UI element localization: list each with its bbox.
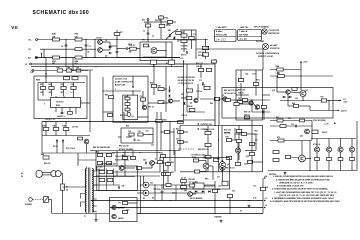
svg-text:R100: R100 xyxy=(192,157,196,159)
svg-text:D6: D6 xyxy=(152,198,154,200)
wire xyxy=(102,49,110,51)
svg-text:+15 (B): +15 (B) xyxy=(97,167,103,169)
wire xyxy=(207,159,209,172)
wire xyxy=(41,122,43,154)
wire xyxy=(200,64,202,69)
wire xyxy=(180,171,222,173)
switch S1 dashed link xyxy=(33,199,44,201)
terminal blob xyxy=(35,56,38,58)
wire xyxy=(116,151,118,166)
wire xyxy=(112,171,160,173)
wire xyxy=(328,139,330,147)
wire rectified+ xyxy=(149,184,215,186)
wire xyxy=(169,151,171,164)
wire xyxy=(154,185,156,188)
capacitor C4 xyxy=(65,45,68,46)
diode D10 xyxy=(202,190,204,192)
primary tap jog 2 xyxy=(81,202,86,207)
transistor Q12 xyxy=(305,129,310,134)
wire xyxy=(255,135,257,151)
svg-text:R56: R56 xyxy=(210,103,213,105)
wire xyxy=(161,193,163,201)
svg-text:R70: R70 xyxy=(276,117,279,119)
resistor R41 xyxy=(40,83,46,89)
wire xyxy=(51,83,53,87)
wire ps grid2 xyxy=(93,184,120,186)
svg-text:(+15): (+15) xyxy=(325,124,329,126)
svg-text:CHASSIS: CHASSIS xyxy=(214,216,222,219)
wire xyxy=(45,122,47,128)
svg-text:Q19, D9, D11, Q18, F1, T1, S1,: Q19, D9, D11, Q18, F1, T1, S1, U8, R105 … xyxy=(279,194,335,197)
junction xyxy=(161,184,162,185)
svg-text:4 LINE CONTROL FET: 4 LINE CONTROL FET xyxy=(115,81,134,84)
capacitor C12 box xyxy=(140,96,146,101)
svg-text:+: + xyxy=(164,190,165,192)
svg-text:OHMS ARE 5%, 1/4 W, 1 K =: OHMS ARE 5%, 1/4 W, 1 K = 1 K OHM. xyxy=(279,181,313,184)
resistor R28 xyxy=(52,34,60,41)
junction xyxy=(214,125,215,126)
junction xyxy=(83,82,84,83)
capacitor C51 box xyxy=(106,162,111,165)
svg-text:1u: 1u xyxy=(255,143,257,145)
resistor R73d xyxy=(350,158,355,161)
wire xyxy=(245,150,256,152)
chassis ground under T1 xyxy=(94,219,97,222)
wire xyxy=(128,202,137,204)
svg-text:PHYSICAL CONFIGURATION: PHYSICAL CONFIGURATION xyxy=(256,52,280,55)
resistor R91 xyxy=(106,154,111,157)
wire input+ rail xyxy=(38,39,209,41)
svg-text:(7.5): (7.5) xyxy=(253,198,257,200)
wire xyxy=(218,126,220,172)
svg-text:C13: C13 xyxy=(193,34,196,36)
wire bridge feed 1 xyxy=(140,176,142,214)
svg-text:COLLECTOR: COLLECTOR xyxy=(269,30,280,32)
junction xyxy=(132,90,133,91)
capacitor C16 box xyxy=(206,69,211,72)
wire bus second xyxy=(31,66,184,68)
capacitor C2 xyxy=(85,44,89,46)
svg-text:C15a: C15a xyxy=(205,47,209,49)
wire xyxy=(200,98,222,100)
svg-text:dbx: dbx xyxy=(69,10,79,16)
svg-text:R43: R43 xyxy=(61,83,64,86)
capacitor C53 xyxy=(161,190,165,192)
wire xyxy=(183,141,188,143)
wire xyxy=(73,96,75,98)
capacitor C49 xyxy=(146,162,147,165)
diode D14 xyxy=(109,46,111,48)
svg-text:TO MTR: TO MTR xyxy=(224,133,231,135)
power supply grid enclosure xyxy=(97,166,138,191)
wire xyxy=(302,97,304,101)
resistor R24 xyxy=(52,56,60,63)
svg-text:R50: R50 xyxy=(124,97,127,99)
wire xyxy=(178,39,196,41)
wire xyxy=(340,139,342,147)
wire ladder2 xyxy=(205,40,207,60)
wire xyxy=(184,119,206,121)
svg-text:C18 10u: C18 10u xyxy=(196,91,202,93)
junction xyxy=(175,192,176,193)
power supply sub box xyxy=(110,198,138,222)
resistor R72a xyxy=(300,119,305,122)
capacitor C6 box xyxy=(150,60,156,64)
svg-text:R57 C24: R57 C24 xyxy=(120,114,127,117)
junction xyxy=(65,39,66,40)
svg-text:Q12: Q12 xyxy=(300,136,303,138)
svg-text:C38: C38 xyxy=(255,109,258,111)
svg-text:D9 D10 BRIDGE: D9 D10 BRIDGE xyxy=(190,198,203,200)
wire xyxy=(148,21,161,23)
junction xyxy=(255,94,256,95)
wire xyxy=(222,160,224,165)
wire xyxy=(191,30,193,37)
wire AC neutral xyxy=(42,174,50,176)
resistor R60 xyxy=(238,79,243,82)
capacitor C52 xyxy=(154,187,158,189)
arrow +24V xyxy=(264,177,266,179)
svg-text:2200: 2200 xyxy=(157,189,161,191)
capacitor C14 xyxy=(187,51,188,54)
wire xyxy=(328,152,330,157)
wire meter vert xyxy=(238,126,240,161)
resistor R95 xyxy=(122,211,127,214)
input terminal J1 tip xyxy=(36,39,38,41)
wire long vertical xyxy=(160,112,162,150)
svg-text:R66: R66 xyxy=(171,162,174,164)
resistor R35a xyxy=(189,37,194,40)
arrow signal xyxy=(197,123,199,125)
junction xyxy=(45,63,46,64)
svg-text:C31: C31 xyxy=(217,177,220,179)
svg-text:C39: C39 xyxy=(291,124,294,126)
svg-text:C56: C56 xyxy=(265,187,268,189)
resistor R44 xyxy=(43,124,49,130)
wire xyxy=(55,122,57,128)
wire transformer tap xyxy=(93,211,96,213)
wire xyxy=(151,165,153,168)
svg-text:R46: R46 xyxy=(63,124,66,127)
wire xyxy=(43,49,45,57)
wire xyxy=(204,185,215,187)
resistor R61 xyxy=(237,101,242,104)
wire xyxy=(305,158,311,160)
wire xyxy=(56,143,58,154)
wire trim arrow xyxy=(166,29,178,40)
wire xyxy=(81,102,91,104)
wire xyxy=(61,173,62,175)
sidechain left box xyxy=(236,70,263,120)
wire xyxy=(154,162,170,164)
wire xyxy=(78,159,96,161)
transistor Q23 xyxy=(112,214,116,218)
junction xyxy=(124,175,125,176)
capacitor C5 xyxy=(147,33,150,34)
wire xyxy=(301,141,303,156)
VCA dbx202 enclosure xyxy=(113,76,148,122)
wire xyxy=(153,88,155,95)
wire threshold mid xyxy=(42,135,90,137)
junction xyxy=(72,70,73,71)
svg-text:4. REFERENCE ASSEMBLY DWG /: 4. REFERENCE ASSEMBLY DWG / BOARD SCHEMA… xyxy=(272,197,334,200)
svg-text:C55: C55 xyxy=(232,191,235,193)
svg-text:POWER: POWER xyxy=(25,204,32,206)
wire xyxy=(191,40,193,50)
resistor R43 xyxy=(61,83,67,89)
junction xyxy=(218,139,219,140)
power switch terminal xyxy=(29,198,33,202)
resistor R49 xyxy=(109,96,114,99)
wire xyxy=(183,37,185,40)
svg-text:C4: C4 xyxy=(61,45,63,48)
wire xyxy=(65,131,67,136)
resistor R53 xyxy=(108,114,113,117)
resistor R61c xyxy=(178,121,184,124)
junction xyxy=(300,75,301,76)
wire xyxy=(248,99,270,101)
wire xyxy=(161,185,163,191)
resistor R35 xyxy=(187,89,193,92)
wire xyxy=(77,153,79,166)
resistor R51 xyxy=(125,103,130,106)
svg-text:-15: -15 xyxy=(25,64,28,66)
transistor Q15 xyxy=(338,147,343,152)
resistor R101 xyxy=(194,170,199,173)
svg-text:C34: C34 xyxy=(245,73,248,76)
svg-text:C53: C53 xyxy=(172,193,175,195)
wire xyxy=(316,139,318,147)
terminal +15 feed xyxy=(147,19,149,21)
wire xyxy=(270,125,312,127)
wire xyxy=(126,136,132,138)
resistor R32 xyxy=(198,69,203,72)
svg-text:(-)OUT: (-)OUT xyxy=(341,111,347,113)
wire xyxy=(123,112,125,121)
capacitor C50 box xyxy=(97,162,102,165)
junction xyxy=(123,121,124,122)
resistor R61a xyxy=(178,131,184,134)
VCA inner module box xyxy=(123,95,138,119)
wire xyxy=(287,94,289,106)
svg-text:NOTE TYP. LOCAT.: NOTE TYP. LOCAT. xyxy=(258,55,274,58)
transistor Q16 xyxy=(349,147,354,152)
capacitor C9 xyxy=(127,47,128,50)
wire xyxy=(127,111,129,113)
transistor Q27 xyxy=(220,162,226,168)
wire xyxy=(124,151,126,157)
wire xyxy=(118,57,180,59)
wire xyxy=(183,131,188,133)
wire xyxy=(251,100,253,112)
wire right edge vertical xyxy=(356,121,358,171)
wire xyxy=(316,152,318,157)
resistor R74 xyxy=(273,151,279,154)
junction xyxy=(102,90,103,91)
diode D1b2 xyxy=(173,37,175,39)
wire xyxy=(243,101,249,103)
wire xyxy=(142,91,144,98)
svg-text:160: 160 xyxy=(80,10,90,16)
resistor R33 xyxy=(181,32,187,37)
wire xyxy=(234,128,236,140)
resistor R83 xyxy=(241,133,246,136)
wire xyxy=(316,161,318,171)
resistor R87 xyxy=(213,159,218,162)
wire transformer tap xyxy=(93,198,96,200)
resistor R75a xyxy=(225,99,230,102)
wire xyxy=(51,200,53,214)
svg-text:C26: C26 xyxy=(137,140,140,142)
svg-text:R55: R55 xyxy=(158,86,161,88)
transistor Q2 xyxy=(98,48,103,53)
wire xyxy=(180,125,222,127)
svg-text:C4 R16: C4 R16 xyxy=(96,37,102,40)
wire xyxy=(70,69,93,71)
wire xyxy=(127,105,129,108)
transistor Q3 xyxy=(151,48,157,54)
wire bus -15V xyxy=(31,63,208,65)
wire xyxy=(183,30,185,34)
junction xyxy=(156,121,157,122)
wire input- rail xyxy=(40,48,96,50)
wire xyxy=(169,122,171,151)
wire xyxy=(109,42,111,50)
arrow output minus xyxy=(338,110,340,112)
wire xyxy=(86,167,88,169)
resistor R42 xyxy=(49,83,55,89)
svg-text:4K3: 4K3 xyxy=(75,62,78,65)
diode D11 xyxy=(208,190,210,192)
svg-text:C25: C25 xyxy=(146,131,149,133)
wire xyxy=(41,54,43,58)
svg-text:Q18: Q18 xyxy=(246,156,249,158)
resistor R20 xyxy=(159,24,169,28)
junction xyxy=(154,184,155,185)
svg-text:C8: C8 xyxy=(173,39,175,41)
terminal bus xyxy=(30,63,32,65)
resistor R46b xyxy=(77,137,82,140)
resistor R98 xyxy=(130,157,135,160)
svg-text:R63 10K C37 R69: R63 10K C37 R69 xyxy=(224,90,238,92)
wire xyxy=(128,48,140,50)
transistor Q4a xyxy=(127,113,131,117)
transistor Q6 xyxy=(194,98,198,102)
transformer T1 primary winding xyxy=(85,169,86,213)
wire xyxy=(351,139,353,147)
svg-text:R58: R58 xyxy=(126,126,129,128)
resistor R31b xyxy=(176,32,181,35)
transistor Q7 xyxy=(223,97,227,101)
junction xyxy=(251,99,252,100)
diode D1 xyxy=(169,34,171,36)
svg-text:C41: C41 xyxy=(71,83,74,86)
capacitor C50 grid box xyxy=(99,170,105,173)
resistor R23 xyxy=(159,16,169,20)
wire AC drop lower xyxy=(62,190,64,213)
wire xyxy=(183,43,185,52)
wire xyxy=(42,83,44,87)
capacitor C7 xyxy=(116,52,119,53)
svg-text:C5: C5 xyxy=(143,31,145,33)
wire bus gnd xyxy=(31,70,88,72)
svg-text:3. LAST REF. DESIGNATORS USE: 3. LAST REF. DESIGNATORS USED R84, C57, … xyxy=(274,191,337,194)
wire xyxy=(263,94,271,96)
transistor Q1 xyxy=(98,40,103,45)
wire xyxy=(65,122,67,128)
wire xyxy=(140,184,143,186)
wire xyxy=(55,108,57,113)
svg-text:2. M INDICATES SELECTED VAL: 2. M INDICATES SELECTED VALUE AT TEST 10… xyxy=(272,188,329,191)
wire xyxy=(86,144,88,153)
transistor Q21 xyxy=(150,161,155,166)
svg-text:Q20: Q20 xyxy=(113,164,116,166)
wire xyxy=(65,40,67,67)
wire xyxy=(42,90,44,97)
capacitor C52b box xyxy=(181,186,187,189)
capacitor C31b box xyxy=(222,181,228,186)
resistor R68 xyxy=(292,103,299,108)
svg-text:A. RESISTORS ARE VALUES IN: A. RESISTORS ARE VALUES IN OHMS 5% PRECI… xyxy=(276,178,330,181)
transistor Q9 xyxy=(255,105,259,109)
wire xyxy=(197,84,199,99)
wire input ground rail xyxy=(38,57,181,59)
wire bridge feed 2 xyxy=(143,176,145,185)
wire xyxy=(45,58,47,79)
svg-text:(BELOW’ LVL: (BELOW’ LVL xyxy=(198,149,208,151)
wire xyxy=(255,86,257,96)
wire xyxy=(270,120,312,122)
svg-text:R99: R99 xyxy=(164,171,167,173)
resistor R84 xyxy=(247,161,252,164)
legend box threshold table xyxy=(215,30,237,42)
transistor Q4 xyxy=(142,105,146,109)
svg-text:1u: 1u xyxy=(71,92,73,94)
resistor R27 xyxy=(75,34,83,41)
junction xyxy=(218,98,219,99)
svg-text:BLACK CAN: BLACK CAN xyxy=(115,84,126,87)
wire xyxy=(38,82,84,84)
svg-text:Q25: Q25 xyxy=(184,190,187,192)
svg-text:dbx202C VCA: dbx202C VCA xyxy=(115,78,127,81)
svg-text:C6: C6 xyxy=(152,36,154,38)
transistor Q18 xyxy=(235,148,240,153)
svg-text:Q7: Q7 xyxy=(222,95,224,97)
svg-text:C27: C27 xyxy=(176,139,179,141)
wire xyxy=(49,199,52,201)
junction xyxy=(116,39,117,40)
resistor R40 inner box xyxy=(72,77,78,80)
lamp symbol L2 xyxy=(262,43,268,49)
RMS detector enclosure xyxy=(34,76,87,119)
capacitor C54 box xyxy=(213,188,220,193)
wire xyxy=(72,58,74,71)
diode D15 xyxy=(109,52,111,54)
resistor R99 xyxy=(162,173,167,176)
wire xyxy=(98,169,100,191)
wire transformer tap xyxy=(93,190,96,192)
diode D2 xyxy=(168,90,170,92)
junction xyxy=(214,98,215,99)
arrow vca xyxy=(132,86,134,88)
junction xyxy=(183,84,184,85)
svg-text:Q3: Q3 xyxy=(148,46,150,48)
transistor Q5 xyxy=(168,99,172,103)
svg-text:Q2: Q2 xyxy=(105,56,107,58)
junction xyxy=(139,152,140,153)
resistor R37 xyxy=(186,97,192,100)
resistor R47 xyxy=(68,111,73,114)
